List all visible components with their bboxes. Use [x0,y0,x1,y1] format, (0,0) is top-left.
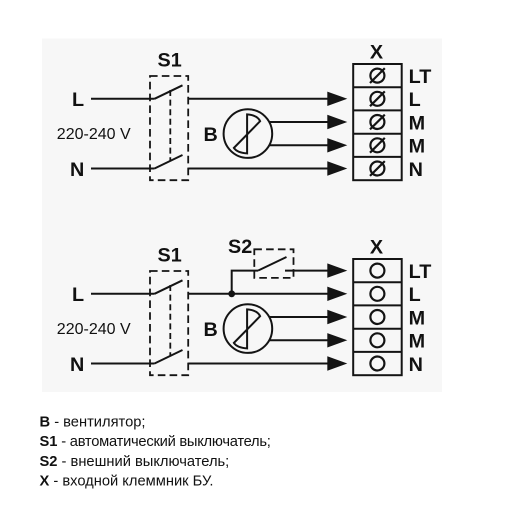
svg-text:B: B [204,124,218,146]
label B (top) [204,124,218,146]
legend line B [40,415,146,431]
switch S1 enclosure (bottom, dashed) [150,271,188,375]
svg-text:S1 - автоматический выключател: S1 - автоматический выключатель; [40,434,271,450]
terminal circle N (bottom) [370,357,384,371]
terminal screw N (top) [370,161,385,176]
svg-text:L: L [72,89,84,111]
label X (bottom) [370,237,384,259]
legend line S2 [40,454,230,470]
label L (bottom left) [72,284,84,306]
terminal screw L (top) [370,91,385,106]
svg-text:S1: S1 [158,245,182,267]
svg-text:B - вентилятор;: B - вентилятор; [40,415,146,431]
svg-text:M: M [409,136,425,158]
label M1 (top block) [409,112,425,134]
svg-text:X: X [370,237,384,259]
svg-text:LT: LT [409,261,432,283]
label M2 (top block) [409,136,425,158]
wire fan to terminal M2 (bottom) with arrow [269,333,347,347]
svg-text:N: N [409,354,423,376]
S1 mechanical linkage (bottom, dashed) [169,285,171,356]
svg-text:L: L [409,284,421,306]
wire fan to terminal M2 (top) with arrow [269,138,347,152]
S1 contact blade, L pole (bottom) [155,280,183,294]
label N (top left) [70,159,84,181]
terminal screw LT (top) [370,68,385,83]
wire S1 to terminal N (bottom) with arrow [188,356,347,370]
label N (top block) [409,159,423,181]
wire S1 to terminal L (top) with arrow [188,92,347,106]
S1 contact blade, N pole (bottom) [155,350,183,364]
wire fan to terminal M1 (top) with arrow [269,115,347,129]
label 220-240 V (bottom) [57,321,131,338]
wire junction up to S2 [232,271,258,294]
terminal block X (bottom) [353,259,402,375]
terminal screw M2 (top) [370,138,385,153]
legend line S1 [40,434,271,450]
label S1 (bottom) [158,245,182,267]
label L (top block) [409,89,421,111]
S1 contact blade, L pole [155,85,183,99]
label 220-240 V (top) [57,126,131,143]
fan B symbol (bottom) [224,304,273,353]
label N (bottom left) [70,354,84,376]
svg-text:M: M [409,331,425,353]
fan B symbol (top) [224,109,273,158]
junction node on L wire [228,290,235,297]
S1 mechanical linkage (dashed) [169,90,171,161]
svg-text:220-240 V: 220-240 V [57,126,131,143]
wire fan to terminal M1 (bottom) with arrow [269,310,347,324]
wire S1 to terminal N (top) with arrow [188,161,347,175]
label L (top left) [72,89,84,111]
switch S2 enclosure (dashed) [254,249,293,278]
svg-text:B: B [204,319,218,341]
legend line X [40,473,214,489]
label S1 (top) [158,50,182,72]
wire L input top [91,98,155,100]
label LT (top) [409,66,432,88]
wire N input bottom [91,363,155,365]
svg-text:M: M [409,112,425,134]
svg-text:N: N [70,159,84,181]
svg-text:S1: S1 [158,50,182,72]
wire N input top [91,168,155,170]
svg-text:L: L [72,284,84,306]
svg-text:LT: LT [409,66,432,88]
svg-text:L: L [409,89,421,111]
label S2 [228,236,252,258]
terminal circle L (bottom) [370,287,384,301]
terminal block X (top) [353,64,402,180]
terminal screw M1 (top) [370,115,385,130]
label M1 (bottom block) [409,307,425,329]
S1 contact blade, N pole [155,155,183,169]
svg-text:X: X [370,42,384,64]
terminal circle M1 (bottom) [370,310,384,324]
svg-text:S2 - внешний выключатель;: S2 - внешний выключатель; [40,454,230,470]
switch S1 enclosure (top, dashed) [150,76,188,180]
S2 contact blade [258,257,287,271]
label N (bottom block) [409,354,423,376]
label M2 (bottom block) [409,331,425,353]
svg-text:S2: S2 [228,236,252,258]
label B (bottom) [204,319,218,341]
label X (top) [370,42,384,64]
wire S1 to terminal L (bottom) with arrow [188,287,347,301]
label L (bottom block) [409,284,421,306]
svg-text:X - входной клеммник БУ.: X - входной клеммник БУ. [40,473,214,489]
svg-text:220-240 V: 220-240 V [57,321,131,338]
wire S2 to terminal LT (bottom) with arrow [285,263,347,277]
terminal circle M2 (bottom) [370,333,384,347]
terminal circle LT (bottom) [370,264,384,278]
svg-text:N: N [70,354,84,376]
svg-text:N: N [409,159,423,181]
svg-text:M: M [409,307,425,329]
label LT (bottom) [409,261,432,283]
wire L input bottom [91,293,155,295]
